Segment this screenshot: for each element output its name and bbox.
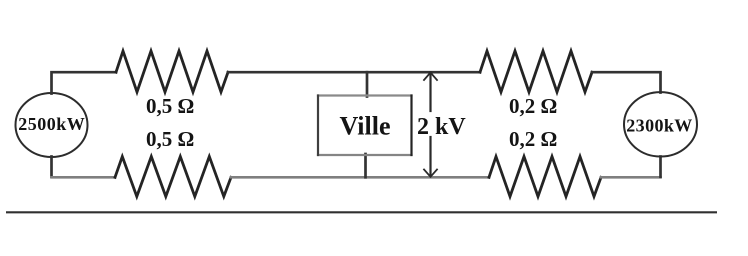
svg-text:2500kW: 2500kW: [18, 114, 85, 134]
wire top-right corner: [592, 72, 661, 92]
svg-text:0,2 Ω: 0,2 Ω: [509, 94, 557, 118]
wire stub from Ville box to bottom wire: [364, 154, 367, 177]
generator G1 2500kW: [16, 93, 88, 157]
resistor R2 0,2 ohm (top-right): [480, 51, 592, 92]
load box Ville: right edge: [410, 96, 412, 156]
wire top-middle: [228, 71, 480, 74]
wire top-left corner: [52, 72, 117, 93]
svg-text:0,5 Ω: 0,5 Ω: [146, 94, 194, 118]
svg-text:Ville: Ville: [339, 112, 390, 141]
svg-text:2300kW: 2300kW: [626, 116, 692, 136]
wire stub from top wire to Ville box: [366, 72, 369, 96]
resistor R3 0,5 ohm (bottom-left): [115, 157, 231, 197]
wire bottom-left vertical: [50, 157, 53, 177]
generator G2 2300kW: [624, 92, 697, 156]
svg-text:2 kV: 2 kV: [417, 114, 466, 140]
voltage arrow 2 kV: lower shaft: [429, 137, 431, 176]
horizontal rule under figure: [6, 211, 717, 213]
voltage arrow: bottom arrowhead: [424, 170, 437, 177]
wire bottom-middle (grey): [231, 176, 489, 179]
wire bottom-right horizontal (grey): [601, 176, 661, 179]
wire bottom-right vertical: [659, 157, 662, 177]
load box Ville: bottom edge: [318, 154, 412, 156]
svg-text:0,2 Ω: 0,2 Ω: [509, 127, 557, 151]
resistor R4 0,2 ohm (bottom-right): [489, 157, 601, 197]
svg-text:0,5 Ω: 0,5 Ω: [146, 127, 194, 151]
resistor R1 0,5 ohm (top-left): [116, 51, 228, 92]
load box Ville: left edge: [317, 96, 319, 156]
wire bottom-left horizontal (grey): [52, 176, 116, 179]
voltage arrow: top arrowhead: [424, 73, 437, 81]
voltage arrow 2 kV: upper shaft: [429, 73, 431, 112]
load box Ville: top edge: [318, 94, 412, 96]
